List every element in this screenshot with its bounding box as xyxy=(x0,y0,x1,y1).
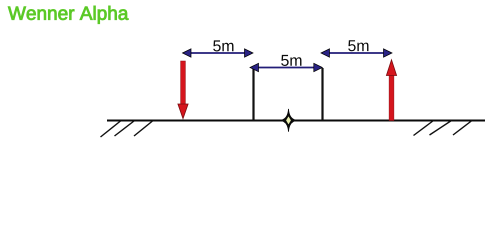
label 5m (P2-C2) xyxy=(348,40,368,51)
potential electrode P1 xyxy=(252,69,254,121)
label 5m (P1-P2) xyxy=(281,55,301,66)
potential electrode P2 xyxy=(321,68,323,121)
center star marker xyxy=(281,109,296,132)
title "Wenner Alpha" xyxy=(8,6,128,24)
dimension arrow P1-P2 xyxy=(250,63,322,71)
ground hatch left xyxy=(101,121,153,137)
ground surface line xyxy=(107,119,485,121)
current electrode C1: red arrow down xyxy=(178,61,188,119)
dimension arrow C1-P1 xyxy=(183,49,254,57)
ground hatch right xyxy=(414,121,473,136)
dimension arrow P2-C2 xyxy=(321,49,392,57)
current electrode C2: red arrow up xyxy=(386,60,396,121)
label 5m (C1-P1) xyxy=(213,40,233,51)
